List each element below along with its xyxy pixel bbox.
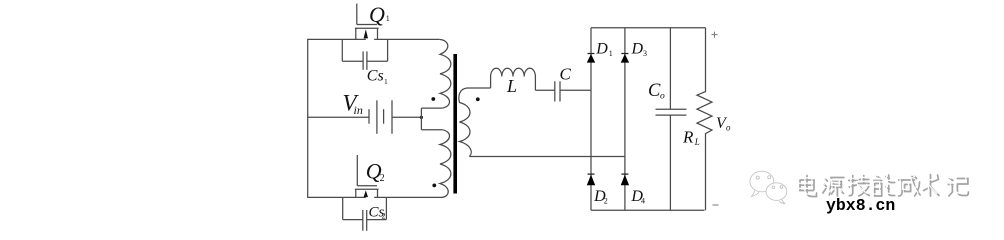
diode D2 xyxy=(587,174,595,185)
svg-text:R: R xyxy=(682,128,694,147)
diode D4 xyxy=(621,174,629,185)
bridge top rail xyxy=(591,27,706,29)
wire Vin feed xyxy=(308,116,369,118)
Q1 body arrow xyxy=(364,29,368,38)
svg-text:C: C xyxy=(560,64,572,83)
Q2 body arrow xyxy=(364,190,368,197)
bridge bottom rail xyxy=(591,209,705,211)
char ji xyxy=(849,176,870,197)
char cheng xyxy=(899,176,921,196)
junction center tap xyxy=(420,116,423,119)
capacitor Cs2 xyxy=(343,197,387,230)
transformer secondary winding xyxy=(459,88,491,157)
svg-text:2: 2 xyxy=(604,197,608,206)
wire center tap lower horizontal xyxy=(421,129,442,131)
svg-text:o: o xyxy=(726,122,731,132)
Q1 source stub xyxy=(355,28,357,39)
diode D3 xyxy=(621,54,629,63)
wire bottom rail right segment (Q2 drain to primary bottom) xyxy=(374,196,442,198)
char dian xyxy=(800,176,817,197)
transistor Q2 xyxy=(355,155,379,197)
wire bottom rail left segment (Vin- to Q2 source) xyxy=(307,196,366,198)
char yuan xyxy=(823,178,844,197)
char zhang xyxy=(924,175,940,197)
svg-text:D: D xyxy=(595,41,608,58)
transformer primary top winding xyxy=(439,39,451,108)
svg-text:in: in xyxy=(354,103,363,117)
capacitor Co branch xyxy=(656,28,687,211)
big bubble tail xyxy=(751,191,759,197)
bridge left leg xyxy=(590,28,592,211)
wire battery to center tap xyxy=(392,116,421,118)
resistor RL branch xyxy=(697,28,712,211)
diode D1 xyxy=(587,54,595,63)
Q2 source stub xyxy=(355,189,357,197)
wire center tap upper horizontal xyxy=(421,107,442,109)
bridge right leg xyxy=(624,28,626,211)
secondary phase dot xyxy=(476,97,480,101)
svg-text:ybx8.cn: ybx8.cn xyxy=(826,196,895,215)
Q2 channel bar xyxy=(355,188,379,190)
svg-text:1: 1 xyxy=(386,14,390,23)
small bubble tail xyxy=(779,200,785,204)
big bubble xyxy=(750,171,774,192)
node - output negative xyxy=(713,204,719,206)
node + output positive xyxy=(712,32,718,38)
watermark text 电源技能成长记 (approximated strokes, embossed) xyxy=(800,175,968,197)
transformer core xyxy=(453,54,457,194)
Q2 drain stub xyxy=(377,189,379,197)
Q1 channel bar xyxy=(355,27,379,29)
char ji2 xyxy=(948,178,968,196)
primary top phase dot xyxy=(431,97,435,101)
wire top rail left segment (Vin- to Q1 source) xyxy=(307,38,366,40)
primary bottom phase dot xyxy=(432,184,436,188)
small bubble xyxy=(766,183,787,201)
Q2 gate bar xyxy=(357,185,377,187)
watermark emboss highlight xyxy=(798,172,966,194)
svg-text:L: L xyxy=(694,137,700,147)
wire center tap vertical xyxy=(420,108,422,130)
wire left bus vertical xyxy=(307,39,309,197)
inductor L xyxy=(491,68,536,90)
svg-text:L: L xyxy=(506,76,517,96)
svg-text:Cs: Cs xyxy=(367,68,384,85)
svg-text:D: D xyxy=(631,41,644,58)
char neng xyxy=(874,175,895,196)
wire L to C xyxy=(535,89,554,91)
transformer primary bottom winding xyxy=(440,130,451,198)
eyes xyxy=(756,176,782,189)
watermark wechat icon xyxy=(750,171,787,204)
svg-text:1: 1 xyxy=(384,77,388,86)
svg-text:2: 2 xyxy=(382,211,386,220)
svg-text:3: 3 xyxy=(643,49,647,58)
wire C to bridge xyxy=(560,89,591,91)
svg-text:o: o xyxy=(660,92,665,102)
wire top rail right segment (Q1 drain to primary top) xyxy=(374,38,439,40)
capacitor C xyxy=(555,81,560,101)
Q1 gate lead xyxy=(356,4,358,25)
svg-text:1: 1 xyxy=(609,49,613,58)
battery Vin xyxy=(369,100,392,134)
wire secondary bottom to bridge xyxy=(469,156,625,158)
svg-text:4: 4 xyxy=(641,197,645,206)
svg-text:2: 2 xyxy=(380,173,385,184)
transistor Q1 xyxy=(355,4,379,40)
capacitor Cs1 xyxy=(342,39,387,69)
Q1 drain stub xyxy=(377,28,379,39)
Q1 gate bar xyxy=(357,24,377,26)
svg-text:Q: Q xyxy=(369,2,385,27)
Q2 gate lead xyxy=(356,155,358,186)
